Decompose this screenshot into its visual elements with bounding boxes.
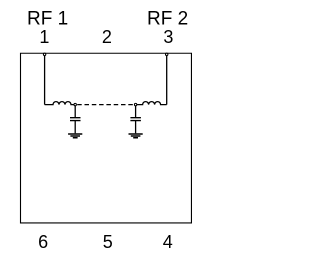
svg-text:3: 3 [163, 27, 173, 47]
svg-text:1: 1 [39, 27, 49, 47]
svg-text:6: 6 [38, 232, 48, 252]
svg-text:4: 4 [163, 232, 173, 252]
svg-text:2: 2 [102, 27, 112, 47]
svg-text:5: 5 [103, 232, 113, 252]
